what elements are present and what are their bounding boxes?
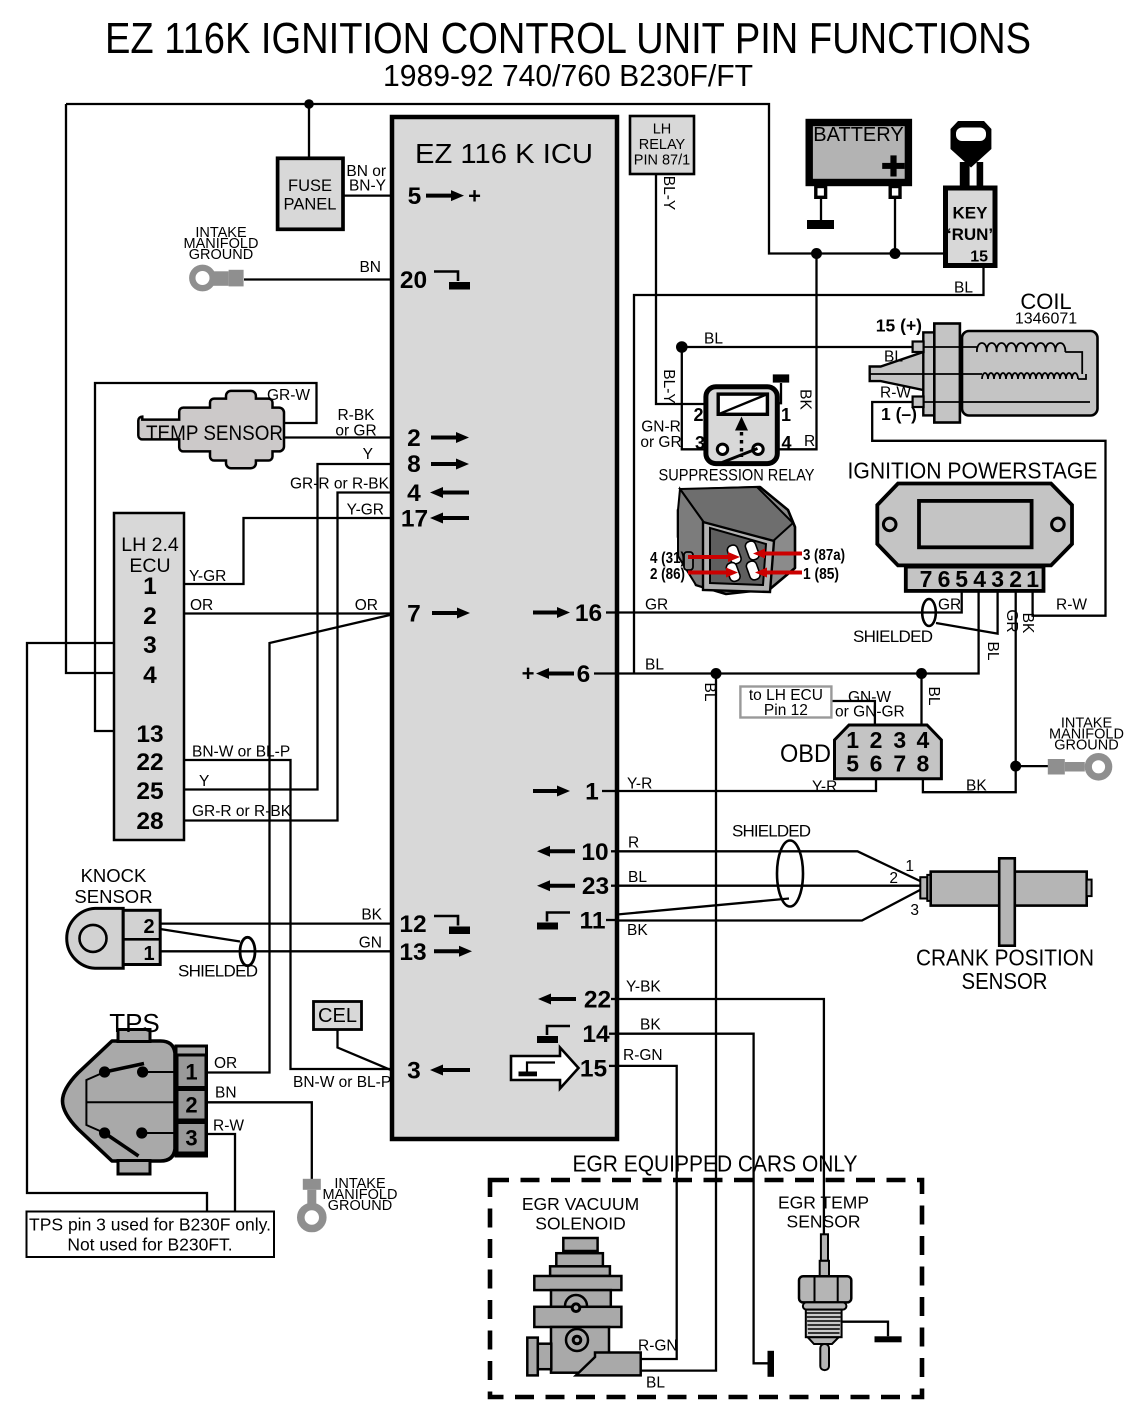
coil cap plates (923, 332, 935, 415)
ICU pin 20 icon (400, 267, 470, 294)
svg-text:6: 6 (938, 566, 951, 592)
node BL branch right (916, 668, 927, 679)
svg-text:BL-Y: BL-Y (660, 369, 677, 403)
wire BL coil feed with branch to relay pin 3 (682, 346, 913, 348)
CEL box (314, 1002, 362, 1030)
svg-text:BATTERY: BATTERY (813, 124, 903, 146)
svg-text:SHIELDED: SHIELDED (732, 822, 811, 841)
temp sensor body (138, 391, 284, 468)
svg-text:6: 6 (870, 751, 883, 777)
svg-text:1: 1 (585, 779, 599, 806)
ICU pin 14 icon (537, 1021, 617, 1048)
svg-text:4: 4 (407, 480, 421, 507)
svg-text:EZ 116K IGNITION CONTROL UNIT: EZ 116K IGNITION CONTROL UNIT PIN FUNCTI… (105, 15, 1031, 63)
relay arrow (735, 417, 748, 431)
TPS pin cells (177, 1055, 206, 1088)
CEL stem wire (338, 1030, 393, 1071)
svg-text:1: 1 (143, 573, 157, 600)
svg-text:28: 28 (136, 808, 163, 835)
svg-text:2: 2 (143, 916, 154, 938)
svg-text:1 (85): 1 (85) (803, 566, 839, 583)
intake manifold ground ring terminal lower (301, 1179, 323, 1229)
node battery junction left (811, 248, 822, 259)
svg-text:BL: BL (704, 331, 723, 348)
svg-text:BK: BK (1019, 613, 1036, 634)
svg-text:EGR TEMP: EGR TEMP (778, 1193, 869, 1213)
to LH ECU pin 12 box (740, 687, 831, 718)
svg-text:2 (86): 2 (86) (650, 566, 685, 583)
battery box (809, 123, 908, 183)
svg-text:SENSOR: SENSOR (787, 1212, 861, 1232)
svg-text:8: 8 (407, 451, 421, 478)
svg-text:+: + (468, 184, 481, 209)
wire BN ground to ICU pin 20 (244, 278, 392, 280)
svg-text:BL: BL (646, 1375, 665, 1392)
svg-text:FUSE: FUSE (288, 177, 332, 195)
wire BK branch to intake manifold ground right (1016, 765, 1048, 767)
node fuse panel tap (304, 99, 314, 109)
coil terminal 1 (913, 397, 924, 408)
svg-text:3: 3 (407, 1058, 421, 1085)
svg-text:TEMP SENSOR: TEMP SENSOR (146, 421, 283, 445)
ICU pin 8 icon (407, 451, 469, 478)
suppression relay pictorial (678, 487, 795, 594)
ICU pin 22 icon (538, 987, 617, 1014)
crank shield ellipse (777, 841, 803, 907)
svg-text:IGNITION POWERSTAGE: IGNITION POWERSTAGE (848, 458, 1098, 484)
coil body (962, 331, 1098, 416)
wire BL key run to ICU pin 6 (634, 265, 984, 674)
svg-text:TPS: TPS (109, 1008, 160, 1038)
svg-text:or GR: or GR (640, 434, 681, 451)
wire Y ECU pin 25 to ICU pin 8 (184, 464, 392, 790)
svg-text:BN: BN (359, 259, 381, 276)
svg-text:BL: BL (628, 869, 647, 886)
svg-text:2: 2 (143, 603, 157, 630)
node BL coil junction (676, 341, 688, 353)
wire powerstage pin 3 shield drain (936, 592, 998, 634)
wire GR ICU pin 16 to powerstage pin 5 (617, 592, 962, 613)
svg-text:2: 2 (407, 425, 421, 452)
EGR vacuum solenoid (527, 1238, 640, 1375)
TPS body (63, 1041, 176, 1161)
svg-text:EZ 116 K ICU: EZ 116 K ICU (415, 138, 593, 169)
svg-text:3: 3 (893, 727, 906, 753)
powerstage pin strip (906, 567, 1044, 591)
svg-text:BK: BK (797, 389, 814, 410)
svg-text:2: 2 (1009, 566, 1022, 592)
wire BN or BN-Y fuse to ICU pin 5 (343, 194, 392, 196)
svg-text:SHIELDED: SHIELDED (853, 627, 933, 646)
fuse panel box (278, 158, 343, 229)
svg-text:BN: BN (215, 1085, 237, 1102)
wire R battery junction to suppression relay pin 4 (777, 254, 816, 450)
svg-text:7: 7 (407, 601, 421, 628)
TPS note box (27, 1212, 275, 1258)
svg-text:GR-R or R-BK: GR-R or R-BK (192, 803, 292, 820)
svg-text:EGR VACUUM: EGR VACUUM (522, 1194, 639, 1214)
svg-text:25: 25 (136, 778, 163, 805)
wire ECU pin 3 to note box (27, 643, 207, 1211)
wire GR-R or R-BK ECU pin 28 to ICU pin 4 (184, 493, 392, 821)
ICU pin 7 icon (407, 601, 470, 628)
svg-text:BL: BL (984, 642, 1001, 661)
node battery junction right (890, 248, 901, 259)
node BK ground junction (1010, 761, 1021, 772)
LH relay box (630, 116, 694, 174)
svg-text:3: 3 (695, 433, 705, 453)
svg-text:Y-BK: Y-BK (626, 979, 661, 996)
battery terminal left (816, 187, 826, 198)
ICU pin 1 icon (533, 779, 617, 806)
wire OR TPS pin 1 branch to ICU pin 7 (206, 615, 392, 1073)
svg-text:Pin 12: Pin 12 (764, 702, 808, 719)
wire top frame battery feed (66, 104, 946, 254)
svg-text:R-W: R-W (213, 1118, 244, 1135)
svg-text:SUPPRESSION RELAY: SUPPRESSION RELAY (659, 466, 815, 485)
svg-text:SENSOR: SENSOR (962, 968, 1048, 994)
svg-text:R-W: R-W (880, 385, 911, 402)
svg-text:14: 14 (582, 1021, 610, 1048)
wire GN-W to LH ECU box to OBD pin 2 (831, 701, 875, 726)
svg-text:OR: OR (355, 597, 378, 614)
svg-text:1: 1 (143, 943, 154, 965)
battery terminal right (890, 187, 900, 198)
svg-text:Y-R: Y-R (627, 776, 652, 793)
svg-text:EGR EQUIPPED CARS ONLY: EGR EQUIPPED CARS ONLY (573, 1151, 858, 1177)
svg-text:BL: BL (645, 657, 664, 674)
svg-text:GR-R or R-BK: GR-R or R-BK (290, 476, 390, 493)
TPS top tab (118, 1030, 150, 1042)
battery stub left to chassis ground (820, 197, 822, 220)
svg-text:5: 5 (846, 751, 859, 777)
svg-text:3: 3 (910, 902, 919, 919)
svg-text:R-GN: R-GN (638, 1338, 678, 1355)
svg-text:GROUND: GROUND (1054, 738, 1118, 754)
ICU pin 15 icon (511, 1048, 617, 1089)
svg-text:SOLENOID: SOLENOID (535, 1214, 625, 1234)
wire BK ICU pin 14 to ground (617, 1034, 768, 1364)
svg-text:Y-GR: Y-GR (347, 502, 384, 519)
relay pin 1 BK ground stub (777, 383, 781, 403)
svg-text:‘RUN’: ‘RUN’ (947, 225, 993, 244)
knock shield ellipse (240, 937, 255, 965)
knock sensor body (67, 908, 123, 968)
suppression relay schematic box (706, 387, 777, 464)
wire R-BK or GR temp sensor to ICU pin 2 (284, 436, 392, 438)
wire GN knock pin 1 to ICU pin 13 (160, 950, 392, 952)
svg-text:SENSOR: SENSOR (74, 886, 152, 907)
svg-text:Y: Y (363, 446, 373, 463)
ICU pin 11 icon (537, 908, 617, 935)
node BL branch left (711, 668, 722, 679)
svg-text:1989-92 740/760 B230F/FT: 1989-92 740/760 B230F/FT (383, 58, 753, 93)
wire Y-GR ECU pin 1 to ICU pin 17 (184, 518, 392, 584)
wire R-W coil 1 minus to powerstage pin 1 (872, 402, 1105, 616)
svg-text:BK: BK (627, 922, 648, 939)
svg-text:TPS pin 3 used for B230F only.: TPS pin 3 used for B230F only. (29, 1215, 271, 1235)
svg-text:BN-Y: BN-Y (349, 178, 386, 195)
svg-text:2: 2 (693, 405, 703, 425)
coil HT tower (870, 352, 924, 390)
svg-text:BL: BL (925, 687, 942, 706)
ICU pin 17 icon (401, 506, 469, 533)
wire R-W TPS pin 3 to note box (206, 1134, 235, 1211)
svg-text:16: 16 (575, 600, 602, 627)
svg-text:LH: LH (653, 122, 672, 138)
powerstage body (877, 484, 1072, 566)
svg-text:11: 11 (580, 908, 606, 935)
TPS interior contacts (86, 1072, 177, 1133)
powerstage screws (883, 518, 896, 531)
svg-text:GROUND: GROUND (328, 1198, 392, 1214)
svg-text:R-BK: R-BK (337, 407, 375, 424)
svg-text:BK: BK (361, 907, 382, 924)
svg-text:RELAY: RELAY (639, 137, 686, 153)
ICU pin 4 icon (407, 480, 469, 507)
battery stub right to junction (894, 197, 896, 254)
wire BL branch to OBD pin 4 (920, 674, 922, 727)
wire BL ICU pin 23 to crank sensor pin 2 (617, 885, 920, 887)
intake manifold ground ring terminal upper left (192, 268, 243, 288)
svg-text:GR-W: GR-W (267, 387, 310, 404)
svg-text:3: 3 (143, 632, 157, 659)
svg-text:1: 1 (185, 1060, 197, 1085)
wire BL branch to EGR solenoid (641, 674, 716, 1371)
wire BN TPS pin 2 to lower ground (206, 1102, 312, 1179)
wire left frame to ECU pin 4 (66, 104, 114, 673)
svg-text:4: 4 (781, 433, 791, 453)
svg-text:BK: BK (966, 778, 987, 795)
svg-text:GR: GR (938, 597, 961, 614)
svg-text:CRANK POSITION: CRANK POSITION (916, 945, 1094, 971)
svg-text:GN: GN (359, 935, 382, 952)
wire BL ICU pin 6 to powerstage pin 4 (617, 592, 979, 674)
svg-text:23: 23 (582, 873, 609, 900)
powerstage window (919, 501, 1032, 547)
intake manifold ground ring terminal right (1048, 757, 1109, 777)
ICU pin 2 icon (407, 425, 469, 452)
relay contacts (717, 444, 727, 454)
svg-text:CEL: CEL (318, 1005, 357, 1027)
svg-text:1: 1 (781, 405, 791, 425)
svg-text:13: 13 (136, 721, 163, 748)
svg-text:Y-R: Y-R (812, 779, 837, 796)
svg-text:BL: BL (954, 280, 973, 297)
svg-text:7: 7 (920, 566, 933, 592)
svg-text:1: 1 (905, 858, 914, 875)
svg-text:GN-R: GN-R (641, 419, 681, 436)
svg-text:1 (–): 1 (–) (881, 404, 917, 424)
relay pin callout arrows red (688, 554, 802, 573)
svg-text:BL: BL (701, 683, 718, 702)
svg-text:1: 1 (1026, 566, 1039, 592)
svg-text:SHIELDED: SHIELDED (178, 962, 258, 981)
EGR temp sensor (799, 1234, 851, 1370)
ICU pin 5 icon (408, 183, 481, 210)
svg-text:BN-W or BL-P: BN-W or BL-P (293, 1074, 391, 1091)
svg-text:4: 4 (917, 727, 930, 753)
svg-text:1346071: 1346071 (1015, 311, 1077, 328)
svg-text:OR: OR (190, 597, 213, 614)
wire knock shield drain (160, 929, 240, 942)
svg-text:BN-W or BL-P: BN-W or BL-P (192, 744, 290, 761)
svg-text:15: 15 (580, 1056, 607, 1083)
EGR dashed box (490, 1180, 922, 1397)
svg-text:3 (87a): 3 (87a) (803, 547, 845, 564)
wire fuse panel stem (308, 104, 310, 158)
coil windings (870, 343, 1090, 402)
wire BK knock pin 2 to ICU pin 12 (160, 922, 392, 924)
svg-text:or GN-GR: or GN-GR (835, 704, 905, 721)
svg-text:8: 8 (917, 751, 930, 777)
svg-text:OBD: OBD (780, 740, 831, 768)
wire BL-Y LH relay to suppression relay pin 2 (656, 174, 706, 404)
svg-text:GR: GR (1003, 609, 1020, 632)
TPS bottom tab (118, 1161, 150, 1175)
svg-text:15 (+): 15 (+) (876, 316, 922, 336)
svg-text:5: 5 (955, 566, 968, 592)
coil terminal 15 (913, 342, 924, 353)
svg-text:13: 13 (399, 939, 426, 966)
wire Y-BK ICU pin 22 to EGR temp sensor (617, 999, 824, 1234)
svg-text:KEY: KEY (953, 204, 989, 223)
TPS connector backing (176, 1046, 207, 1156)
wire BN-W or BL-P ECU pin 22 to ICU pin 3 (184, 760, 392, 1069)
svg-text:Y-GR: Y-GR (189, 568, 226, 585)
wire BK powerstage pin 2 to grounds and OBD pin 8 (923, 592, 1016, 792)
svg-text:R-GN: R-GN (623, 1047, 663, 1064)
svg-text:GR: GR (645, 597, 668, 614)
svg-text:15: 15 (970, 249, 988, 266)
svg-text:PIN 87/1: PIN 87/1 (634, 153, 690, 169)
ICU pin 10 icon (537, 839, 617, 866)
ICU pin 23 icon (537, 873, 617, 900)
svg-text:7: 7 (893, 751, 906, 777)
svg-text:BL-Y: BL-Y (660, 176, 677, 210)
svg-text:22: 22 (584, 987, 611, 1014)
svg-text:Not used for B230FT.: Not used for B230FT. (67, 1235, 232, 1255)
ICU pin 12 icon (399, 911, 470, 938)
svg-text:OR: OR (214, 1055, 237, 1072)
wire EGR temp sensor ground (842, 1322, 888, 1337)
svg-text:4: 4 (973, 566, 986, 592)
svg-text:LH 2.4: LH 2.4 (121, 534, 179, 556)
svg-text:12: 12 (399, 911, 426, 938)
svg-text:or GR: or GR (335, 423, 376, 440)
powerstage shield ellipse (922, 599, 936, 626)
svg-text:3: 3 (185, 1126, 197, 1151)
crank position sensor body (920, 877, 927, 898)
LH 2.4 ECU box (114, 513, 184, 840)
relay coil element (718, 394, 767, 414)
svg-text:3: 3 (991, 566, 1004, 592)
svg-text:2: 2 (889, 870, 898, 887)
svg-text:R: R (628, 835, 639, 852)
OBD connector (835, 725, 942, 779)
svg-text:10: 10 (581, 839, 608, 866)
svg-text:GROUND: GROUND (189, 247, 253, 263)
svg-text:+: + (522, 661, 535, 686)
wire Y-R ICU pin 1 to OBD pin 6 (617, 779, 876, 791)
wire BK ICU pin 11 to crank sensor pin 3 (617, 890, 920, 921)
ICU box EZ 116 K (392, 117, 617, 1139)
ICU pin 6 icon (522, 661, 617, 688)
svg-text:PANEL: PANEL (284, 196, 337, 214)
wire crank shield drain (617, 899, 789, 915)
svg-text:2: 2 (185, 1093, 197, 1118)
svg-text:R-W: R-W (1056, 597, 1087, 614)
wire OR ECU pin 2 to ICU pin 7 (184, 612, 392, 614)
svg-text:BL: BL (884, 349, 903, 366)
svg-text:20: 20 (400, 267, 427, 294)
wire R ICU pin 10 to crank sensor pin 1 (617, 851, 920, 881)
wire GR-W temp sensor to ECU pin 13 (95, 383, 317, 731)
svg-text:1: 1 (846, 727, 859, 753)
wire R-GN ICU pin 15 to EGR solenoid (617, 1066, 677, 1359)
svg-text:22: 22 (136, 749, 163, 776)
ICU pin 16 icon (533, 600, 617, 627)
key head icon (951, 121, 992, 168)
svg-text:Y: Y (199, 773, 209, 790)
svg-text:4: 4 (143, 662, 157, 689)
ICU pin 13 icon (399, 939, 472, 966)
knock sensor connector (123, 910, 160, 964)
svg-text:17: 17 (401, 506, 428, 533)
svg-text:5: 5 (408, 183, 422, 210)
svg-text:KNOCK: KNOCK (81, 865, 147, 886)
svg-text:R: R (804, 433, 815, 450)
svg-text:2: 2 (870, 727, 883, 753)
svg-text:BK: BK (640, 1017, 661, 1034)
ICU pin 3 icon (407, 1058, 470, 1085)
svg-text:6: 6 (577, 661, 591, 688)
key run box (946, 188, 996, 266)
svg-text:4 (31): 4 (31) (650, 550, 685, 567)
